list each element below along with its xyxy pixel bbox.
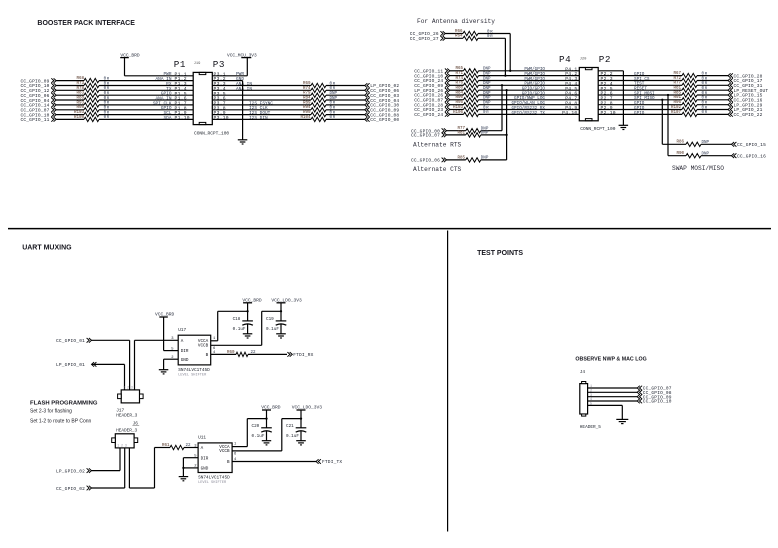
section divider vertical (447, 231, 449, 532)
op-amp U11 level shifter SN74LVC1T45 (198, 443, 232, 473)
svg-text:C18: C18 (233, 317, 241, 322)
wire (212, 94, 311, 96)
svg-text:CC_GPIO_11: CC_GPIO_11 (20, 117, 49, 123)
svg-text:0.1uF: 0.1uF (233, 327, 246, 332)
svg-text:R81: R81 (673, 87, 681, 91)
svg-text:LP_GPIO_01: LP_GPIO_01 (56, 362, 85, 368)
svg-text:CC_GPIO_22: CC_GPIO_22 (734, 112, 763, 118)
svg-text:R98: R98 (76, 106, 84, 110)
svg-text:DIR: DIR (181, 349, 189, 354)
wire (481, 130, 502, 132)
wire (479, 84, 580, 86)
wire (479, 99, 580, 101)
wire (56, 80, 84, 82)
wire (326, 85, 365, 87)
node LP_GPIO_29 (728, 102, 731, 107)
svg-text:FLASH PROGRAMMING: FLASH PROGRAMMING (30, 400, 98, 406)
wire (56, 99, 84, 101)
svg-text:GPIO/RS232_TX: GPIO/RS232_TX (511, 111, 545, 116)
svg-text:1 2 3: 1 2 3 (117, 444, 127, 448)
wire (598, 99, 682, 101)
svg-text:1 2 3: 1 2 3 (123, 385, 133, 389)
wire (248, 353, 287, 355)
wire (479, 109, 580, 111)
node LP_RESET_OUT (728, 88, 731, 93)
wire (598, 94, 682, 96)
node CC_GPIO_31 (728, 83, 731, 88)
wire (326, 99, 365, 101)
wire (99, 85, 193, 87)
capacitor C21 (296, 427, 307, 429)
wire (300, 410, 302, 428)
capacitor C20 (261, 427, 272, 429)
svg-text:R102: R102 (671, 106, 682, 110)
svg-text:R74: R74 (303, 87, 311, 91)
node CC_GPIO_16 (728, 98, 731, 103)
svg-text:U11: U11 (198, 436, 206, 441)
svg-text:VCC_LDO_3V3: VCC_LDO_3V3 (271, 298, 302, 304)
wire (247, 303, 249, 321)
section divider horizontal (8, 228, 771, 230)
wire (661, 99, 663, 101)
wire (164, 358, 179, 360)
svg-text:R99: R99 (303, 111, 311, 115)
wire (99, 89, 193, 91)
node CC_GPIO_30 (365, 103, 368, 108)
svg-text:TEST POINTS: TEST POINTS (477, 250, 523, 257)
node CC_GPIO_16 (732, 153, 735, 158)
svg-text:FTDI_RX: FTDI_RX (293, 352, 313, 358)
wire (478, 37, 505, 39)
ground (159, 369, 169, 371)
wire (92, 470, 121, 472)
wire (697, 94, 728, 96)
svg-text:R86: R86 (676, 141, 684, 145)
svg-text:P1.10: P1.10 (175, 115, 190, 121)
svg-text:B: B (227, 460, 230, 465)
svg-text:CC_GPIO_07: CC_GPIO_07 (411, 133, 440, 139)
connector J17 HEADER_3 (121, 390, 139, 403)
wire (99, 80, 193, 82)
wire (99, 94, 193, 96)
wire (56, 109, 84, 111)
wire (56, 114, 84, 116)
node CC_GPIO_15 (732, 142, 735, 147)
capacitor C19 (276, 320, 287, 322)
svg-text:CC_GPIO_01: CC_GPIO_01 (56, 338, 85, 344)
wire (697, 99, 728, 101)
wire (697, 113, 728, 115)
svg-text:CC_GPIO_16: CC_GPIO_16 (737, 153, 766, 159)
svg-text:R67: R67 (673, 72, 681, 76)
ground (616, 418, 628, 420)
svg-text:R88: R88 (76, 97, 84, 101)
svg-text:R72: R72 (673, 77, 681, 81)
svg-text:CC_GPIO_02: CC_GPIO_02 (56, 486, 85, 492)
wire (124, 58, 126, 76)
svg-text:R78: R78 (76, 87, 84, 91)
svg-text:J19: J19 (194, 62, 202, 66)
node CC_GPIO_10 (637, 399, 640, 404)
svg-text:FTDI_TX: FTDI_TX (322, 459, 342, 465)
node CC_GPIO_07 (637, 386, 640, 391)
wire (701, 143, 732, 145)
svg-text:R93: R93 (76, 101, 84, 105)
ground (619, 124, 629, 126)
svg-text:R103: R103 (74, 111, 85, 115)
wire (211, 344, 262, 346)
wire (99, 99, 193, 101)
wire (212, 99, 311, 101)
node CC_GPIO_08 (365, 112, 368, 117)
svg-text:BOOSTER PACK INTERFACE: BOOSTER PACK INTERFACE (37, 20, 135, 27)
wire (697, 75, 728, 77)
wire (56, 89, 84, 91)
svg-text:Alternate CTS: Alternate CTS (413, 166, 462, 173)
svg-text:R91: R91 (673, 96, 681, 100)
svg-text:R77: R77 (673, 82, 681, 86)
node CC_GPIO_28 (728, 73, 731, 78)
svg-text:R96: R96 (673, 101, 681, 105)
connector P4/P2 J20 (579, 68, 598, 121)
ground (238, 139, 248, 141)
node LP_GPIO_02 (365, 83, 368, 88)
wire (697, 109, 728, 111)
wire (326, 104, 365, 106)
svg-text:U17: U17 (178, 328, 186, 333)
svg-text:R68: R68 (76, 77, 84, 81)
wire (697, 84, 728, 86)
wire (481, 134, 507, 136)
wire (56, 104, 84, 106)
wire (598, 113, 682, 115)
wire (155, 447, 171, 449)
wire (266, 410, 268, 428)
wire (212, 104, 311, 106)
svg-text:J17: J17 (116, 408, 124, 413)
wire (697, 89, 728, 91)
wire (697, 104, 728, 106)
svg-text:R85: R85 (673, 91, 681, 95)
wire (92, 363, 125, 365)
wire (211, 353, 236, 355)
node LP_GPIO_15 (728, 93, 731, 98)
svg-text:R83: R83 (76, 92, 84, 96)
node CC_GPIO_04 (365, 98, 368, 103)
wire (99, 114, 193, 116)
node CC_GPIO_08 (637, 390, 640, 395)
wire (326, 89, 365, 91)
node CC_GPIO_03 (365, 93, 368, 98)
ground (243, 333, 253, 335)
svg-text:J4: J4 (580, 370, 586, 375)
node CC_GPIO_09 (365, 108, 368, 113)
svg-text:P4: P4 (559, 54, 571, 65)
wire (135, 339, 179, 341)
svg-text:HEADER_5: HEADER_5 (580, 425, 601, 430)
svg-text:J20: J20 (580, 57, 588, 61)
wire (481, 159, 507, 161)
svg-text:0.1uF: 0.1uF (252, 434, 265, 439)
svg-text:CC_GPIO_15: CC_GPIO_15 (737, 142, 766, 148)
wire (212, 118, 311, 120)
wire (99, 104, 193, 106)
op-amp U17 level shifter SN74LVC1T45 (178, 335, 211, 365)
svg-text:P3: P3 (213, 59, 225, 70)
node CC_GPIO_22 (728, 112, 731, 117)
wire (163, 317, 165, 351)
wire (56, 85, 84, 87)
svg-text:GPIO: GPIO (634, 111, 645, 116)
wire (232, 446, 247, 448)
svg-text:0.1uF: 0.1uF (266, 327, 279, 332)
svg-text:P4.10: P4.10 (562, 110, 577, 116)
wire (128, 448, 130, 488)
node CC_GPIO_00 (365, 117, 368, 122)
wire (184, 447, 198, 449)
svg-text:SN74LVC1T45D: SN74LVC1T45D (198, 476, 230, 481)
wire (212, 80, 242, 82)
svg-text:VCCB: VCCB (198, 344, 209, 349)
wire (667, 94, 669, 96)
ground (179, 476, 189, 478)
svg-text:P3.10: P3.10 (214, 115, 229, 121)
wire (598, 70, 623, 72)
svg-text:VCCB: VCCB (219, 449, 230, 454)
wire (506, 90, 508, 160)
svg-text:R90: R90 (676, 152, 684, 156)
svg-text:R73: R73 (76, 82, 84, 86)
wire (211, 340, 218, 342)
wire (92, 339, 130, 341)
connector P1/P3 J19 (193, 72, 212, 124)
ground (296, 440, 306, 442)
wire (697, 80, 728, 82)
svg-text:Set 1-2 to route to BP Conn: Set 1-2 to route to BP Conn (30, 418, 92, 424)
wire (212, 109, 311, 111)
wire (183, 467, 198, 469)
wire (232, 461, 316, 463)
capacitor C18 (242, 320, 253, 322)
svg-text:P2: P2 (599, 54, 611, 65)
svg-text:OBSERVE NWP & MAC LOG: OBSERVE NWP & MAC LOG (575, 356, 646, 362)
svg-text:SN74LVC1T45D: SN74LVC1T45D (178, 368, 210, 373)
svg-text:R61: R61 (162, 444, 170, 448)
wire (326, 109, 365, 111)
svg-text:For Antenna diversity: For Antenna diversity (417, 18, 495, 25)
svg-text:R107: R107 (671, 111, 682, 115)
svg-text:CC_GPIO_00: CC_GPIO_00 (370, 117, 399, 123)
wire (326, 114, 365, 116)
svg-text:CC_GPIO_06: CC_GPIO_06 (411, 158, 440, 164)
svg-text:GND: GND (181, 358, 189, 363)
wire (479, 89, 580, 91)
svg-text:CONN_RCPT_100: CONN_RCPT_100 (580, 126, 615, 132)
svg-text:CONN_RCPT_100: CONN_RCPT_100 (194, 130, 229, 136)
svg-text:R79: R79 (303, 92, 311, 96)
svg-text:0.1uF: 0.1uF (286, 434, 299, 439)
svg-text:Set 2-3 for flashing: Set 2-3 for flashing (30, 409, 72, 415)
wire (212, 75, 247, 77)
svg-text:CC_GPIO_24: CC_GPIO_24 (414, 112, 443, 118)
wire (598, 75, 682, 77)
wire (701, 155, 732, 157)
svg-text:C20: C20 (252, 424, 260, 429)
svg-text:HEADER_3: HEADER_3 (116, 428, 137, 433)
svg-text:VCC_LDO_3V3: VCC_LDO_3V3 (292, 405, 323, 411)
svg-text:LEVEL SHIFTER: LEVEL SHIFTER (178, 374, 207, 378)
wire (56, 118, 84, 120)
svg-text:DIR: DIR (201, 456, 209, 461)
svg-text:GND: GND (201, 467, 209, 472)
svg-text:C19: C19 (266, 317, 274, 322)
wire (232, 450, 282, 452)
node LP_GPIO_21 (728, 107, 731, 112)
node FTDI_TX (316, 459, 319, 464)
svg-text:A: A (201, 446, 204, 451)
svg-text:C21: C21 (286, 424, 294, 429)
wire (183, 457, 198, 459)
svg-text:LP_GPIO_02: LP_GPIO_02 (56, 468, 85, 474)
node CC_GPIO_17 (728, 78, 731, 83)
svg-text:Alternate RTS: Alternate RTS (413, 142, 462, 149)
svg-text:LEVEL SHIFTER: LEVEL SHIFTER (198, 481, 227, 485)
wire (598, 104, 682, 106)
wire (479, 104, 580, 106)
node FTDI_RX (290, 352, 293, 357)
wire (479, 80, 580, 82)
svg-text:SDA: SDA (164, 115, 172, 121)
wire (99, 118, 193, 120)
svg-text:R60: R60 (227, 351, 235, 355)
wire (598, 80, 682, 82)
svg-text:R84: R84 (303, 97, 311, 101)
svg-text:R104: R104 (300, 116, 311, 120)
svg-text:R108: R108 (74, 116, 85, 120)
wire (326, 94, 365, 96)
node CC_GPIO_06 (365, 88, 368, 93)
svg-text:R69: R69 (303, 82, 311, 86)
wire (598, 89, 682, 91)
svg-text:P2.10: P2.10 (601, 110, 616, 116)
wire (212, 114, 311, 116)
wire (478, 33, 510, 35)
wire (479, 94, 580, 96)
wire (501, 85, 503, 130)
wire (99, 109, 193, 111)
wire (92, 487, 125, 489)
wire (326, 118, 365, 120)
svg-text:B: B (206, 353, 209, 358)
svg-text:CC_GPIO_10: CC_GPIO_10 (643, 399, 672, 405)
svg-text:SWAP MOSI/MISO: SWAP MOSI/MISO (672, 165, 724, 172)
wire (280, 303, 282, 321)
wire (479, 70, 580, 72)
wire (598, 84, 682, 86)
svg-text:CC_GPIO_27: CC_GPIO_27 (410, 36, 439, 42)
wire (212, 85, 311, 87)
svg-text:A: A (181, 339, 184, 344)
ground (262, 440, 271, 442)
wire (56, 94, 84, 96)
svg-text:R89: R89 (303, 101, 311, 105)
ground (276, 333, 286, 335)
svg-text:UART MUXING: UART MUXING (22, 245, 72, 252)
wire (212, 89, 311, 91)
node CC_GPIO_09 (637, 394, 640, 399)
svg-text:P1: P1 (174, 59, 186, 70)
wire (479, 113, 580, 115)
wire (598, 109, 682, 111)
svg-text:R94: R94 (303, 106, 311, 110)
svg-text:HEADER_3: HEADER_3 (116, 414, 137, 419)
wire (479, 75, 580, 77)
